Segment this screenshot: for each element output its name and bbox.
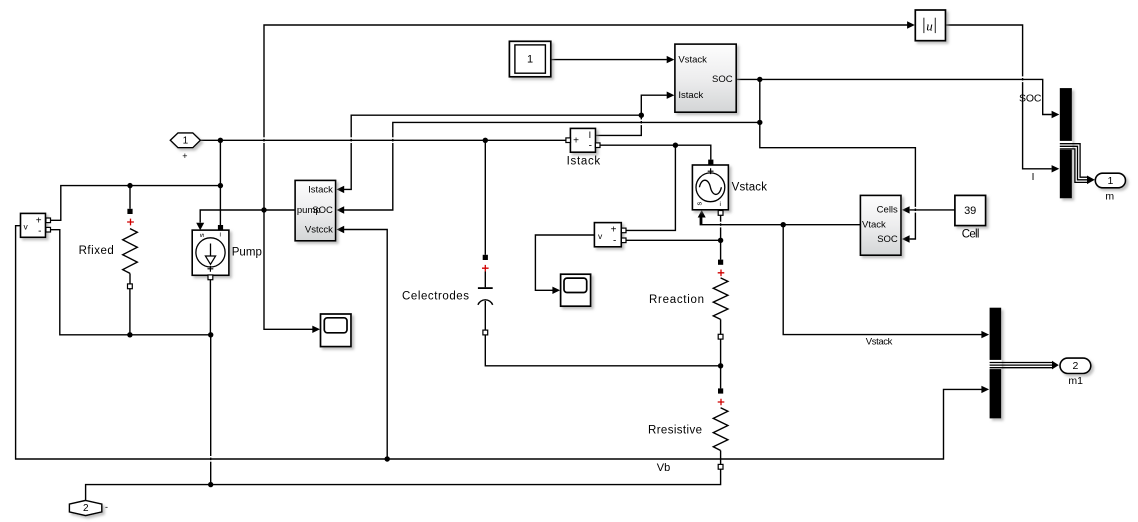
svg-text:+: + <box>182 151 187 161</box>
svg-text:-: - <box>105 502 108 512</box>
svg-text:-: - <box>613 236 616 247</box>
svg-text:Vb: Vb <box>657 462 670 474</box>
svg-text:2: 2 <box>1072 360 1078 372</box>
abs block |u| <box>915 10 945 41</box>
svg-text:+: + <box>611 225 617 236</box>
resistor Rresistive <box>648 388 728 469</box>
resistor Rreaction <box>649 260 728 339</box>
outport m <box>1095 173 1125 203</box>
wire <box>129 289 131 335</box>
svg-text:+: + <box>573 135 579 146</box>
current sensor Istack <box>566 128 601 167</box>
wire <box>736 79 1051 114</box>
wire bus arrowhead <box>1087 176 1095 185</box>
wire <box>720 240 722 259</box>
subsystem Cells <box>860 195 901 255</box>
svg-text:Istack: Istack <box>567 156 601 168</box>
svg-text:SOC: SOC <box>877 234 898 245</box>
svg-text:1: 1 <box>1107 175 1113 187</box>
inport 1 <box>170 133 200 161</box>
svg-text:1: 1 <box>527 54 533 66</box>
svg-text:Vstcck: Vstcck <box>305 224 333 235</box>
node junction dots <box>127 77 786 488</box>
voltage sensor V2 <box>594 223 626 247</box>
svg-text:I: I <box>589 130 592 140</box>
wire <box>344 115 641 189</box>
svg-text:Vtack: Vtack <box>862 219 886 230</box>
wire bus <box>1060 144 1088 183</box>
wire <box>50 186 220 221</box>
wire <box>720 451 722 465</box>
bus creator Mux1 <box>1059 88 1072 198</box>
wire <box>720 319 722 365</box>
subsystem pump controller <box>295 180 336 240</box>
wire <box>535 235 594 290</box>
wire <box>551 59 667 61</box>
wire <box>16 226 982 459</box>
svg-text:Rfixed: Rfixed <box>79 245 114 257</box>
svg-text:i: i <box>219 231 220 238</box>
wire <box>626 145 676 230</box>
voltage sensor V1 <box>21 213 51 237</box>
wire <box>701 218 703 225</box>
wire <box>946 25 1052 169</box>
wire <box>760 79 916 239</box>
wire <box>200 139 566 141</box>
svg-text:Rresistive: Rresistive <box>648 425 702 437</box>
wire <box>344 122 760 210</box>
ac source Vstack <box>692 160 767 216</box>
wire <box>86 469 721 500</box>
svg-text:Istack: Istack <box>678 90 703 101</box>
svg-text:Istack: Istack <box>308 184 333 195</box>
wire <box>344 230 387 460</box>
wire <box>720 366 722 389</box>
svg-text:Celectrodes: Celectrodes <box>402 291 469 303</box>
wire <box>264 25 907 210</box>
constant 1 <box>509 41 550 77</box>
wire <box>219 186 221 225</box>
svg-text:Pump: Pump <box>232 246 262 258</box>
wire <box>720 215 722 240</box>
resistor Rfixed <box>79 209 138 289</box>
wire bus arrowhead <box>1052 361 1059 370</box>
svg-text:Cell: Cell <box>962 228 980 240</box>
wire crossing gaps <box>209 76 1024 461</box>
svg-text:Vstack: Vstack <box>866 337 893 348</box>
svg-text:-: - <box>38 226 41 237</box>
outport m1 <box>1060 358 1091 387</box>
wire <box>910 209 955 211</box>
wire bus <box>990 363 1053 368</box>
svg-text:Vstack: Vstack <box>678 55 707 66</box>
scope Scope1 <box>321 314 352 347</box>
wire <box>484 140 486 255</box>
svg-text:SOC: SOC <box>312 205 333 216</box>
bus creator Mux2 <box>989 308 1002 419</box>
arrowheads <box>196 21 1059 393</box>
wire <box>219 140 221 185</box>
svg-text:-: - <box>589 140 592 151</box>
svg-text:39: 39 <box>964 205 976 217</box>
svg-text:u: u <box>926 18 933 33</box>
scope Scope2 <box>561 274 591 306</box>
svg-text:+: + <box>36 216 42 227</box>
svg-text:I: I <box>1032 172 1035 183</box>
wire <box>129 186 131 209</box>
wire <box>50 230 210 335</box>
constant Cell 39 <box>955 195 986 240</box>
svg-text:s: s <box>694 201 703 205</box>
svg-text:Vstack: Vstack <box>732 182 768 194</box>
wire <box>596 95 667 135</box>
wire <box>209 280 211 335</box>
svg-text:Cells: Cells <box>877 205 898 216</box>
subsystem SOC estimator <box>675 44 736 112</box>
svg-text:m1: m1 <box>1068 375 1083 387</box>
capacitor Celectrodes <box>402 255 493 335</box>
svg-text:s: s <box>197 233 206 237</box>
wire <box>210 335 212 485</box>
wire <box>200 210 295 223</box>
wire <box>700 218 860 225</box>
wire <box>783 225 981 335</box>
svg-text:2: 2 <box>83 503 89 514</box>
svg-text:SOC: SOC <box>712 74 733 85</box>
current source Pump <box>192 225 262 280</box>
svg-text:Rreaction: Rreaction <box>649 294 704 306</box>
svg-text:m: m <box>1105 191 1114 203</box>
wire <box>264 210 313 329</box>
outport 2 <box>69 500 108 515</box>
wire <box>626 239 721 241</box>
svg-text:SOC: SOC <box>1019 93 1042 105</box>
svg-text:i: i <box>719 201 720 208</box>
wire <box>485 335 720 366</box>
wire <box>600 145 711 159</box>
svg-text:1: 1 <box>183 135 189 146</box>
